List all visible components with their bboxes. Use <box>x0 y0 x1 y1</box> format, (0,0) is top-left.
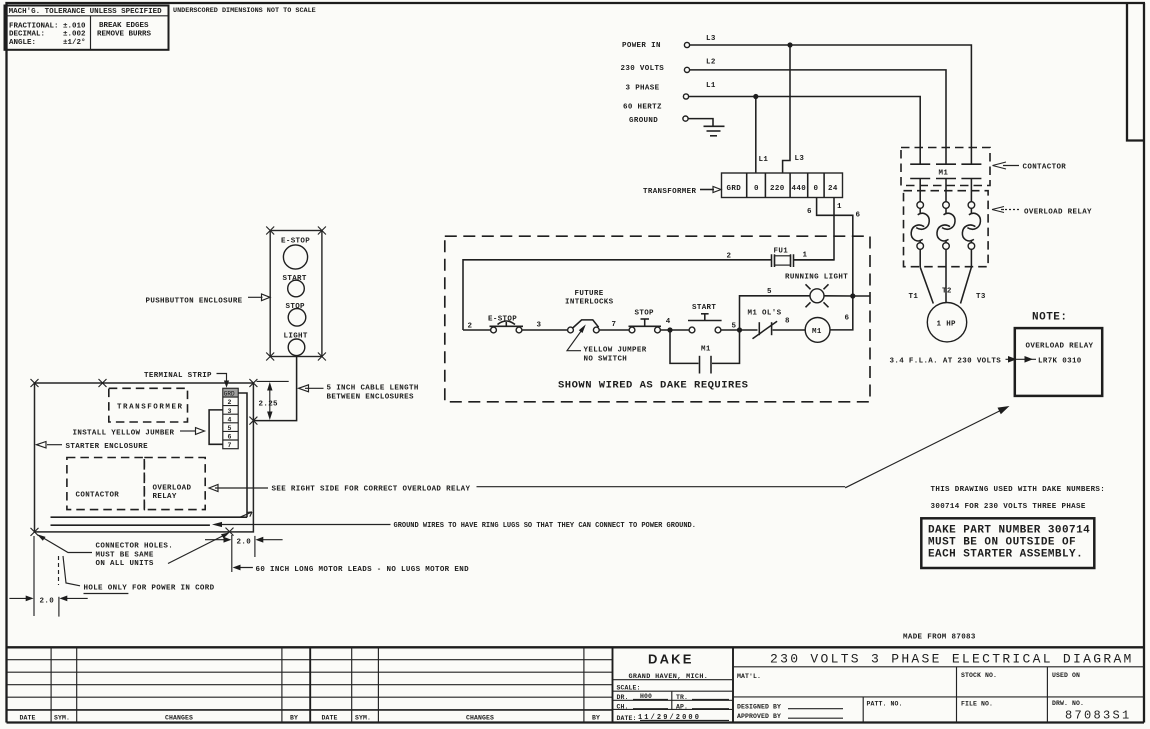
title block right <box>733 651 1144 722</box>
wire 2 top <box>463 260 771 330</box>
svg-text:2: 2 <box>727 253 732 261</box>
starter enclosure <box>31 379 258 536</box>
svg-text:1 HP: 1 HP <box>937 321 957 329</box>
control circuit dashed enclosure <box>445 236 870 402</box>
svg-text:DRW. NO.: DRW. NO. <box>1052 700 1084 707</box>
jumper bracket terminals 3-7 <box>209 410 223 444</box>
svg-text:FU1: FU1 <box>774 248 789 256</box>
svg-text:RUNNING LIGHT: RUNNING LIGHT <box>785 273 848 281</box>
svg-text:REMOVE BURRS: REMOVE BURRS <box>97 31 152 39</box>
svg-text:USED ON: USED ON <box>1052 672 1080 679</box>
ground bar 1 <box>51 516 248 518</box>
svg-text:0: 0 <box>754 185 759 193</box>
svg-text:YELLOW JUMPER: YELLOW JUMPER <box>584 347 647 355</box>
svg-text:L3: L3 <box>706 35 716 43</box>
svg-text:SHOWN WIRED AS DAKE REQUIRES: SHOWN WIRED AS DAKE REQUIRES <box>558 380 748 392</box>
svg-text:2.0: 2.0 <box>237 539 252 547</box>
svg-text:H00: H00 <box>640 693 652 700</box>
svg-text:TR.: TR. <box>676 694 688 701</box>
running light <box>785 273 848 307</box>
svg-text:2: 2 <box>228 399 232 406</box>
svg-text:MADE FROM 87083: MADE FROM 87083 <box>903 633 976 641</box>
svg-text:SEE RIGHT SIDE FOR CORRECT OVE: SEE RIGHT SIDE FOR CORRECT OVERLOAD RELA… <box>272 486 471 494</box>
wire L2 <box>690 70 946 164</box>
svg-text:TRANSFORMER: TRANSFORMER <box>643 188 697 196</box>
svg-text:230 VOLTS 3 PHASE ELECTRICAL D: 230 VOLTS 3 PHASE ELECTRICAL DIAGRAM <box>770 651 1134 666</box>
pushbutton E-STOP (NC) <box>488 316 523 333</box>
dimension 2.0 bottom left <box>9 536 87 617</box>
svg-text:2.25: 2.25 <box>259 400 279 408</box>
svg-text:6: 6 <box>845 314 850 322</box>
svg-text:SCALE:: SCALE: <box>617 685 641 692</box>
overload relay dashed box <box>904 191 989 267</box>
wire L3 branch to transformer <box>783 45 790 173</box>
svg-text:CH.: CH. <box>617 703 629 710</box>
terminal L2 <box>684 67 689 72</box>
svg-text:6: 6 <box>856 212 861 220</box>
svg-text:LR7K 0310: LR7K 0310 <box>1038 358 1082 366</box>
svg-text:DAKE PART NUMBER 300714: DAKE PART NUMBER 300714 <box>928 525 1090 537</box>
svg-text:L1: L1 <box>706 82 716 90</box>
svg-text:T3: T3 <box>976 293 986 301</box>
contactor M1 dashed box <box>901 148 990 186</box>
svg-text:6: 6 <box>228 434 232 441</box>
svg-text:OVERLOAD RELAY: OVERLOAD RELAY <box>1024 209 1092 217</box>
node 5 junction <box>737 327 742 332</box>
wire stub to border <box>853 295 870 297</box>
svg-text:5: 5 <box>228 425 232 432</box>
svg-text:STOCK NO.: STOCK NO. <box>961 672 997 679</box>
motor lead T1 <box>920 267 933 303</box>
yellow jumper leader <box>567 324 647 363</box>
ground bar 2 <box>51 524 210 526</box>
power in labels <box>621 42 665 125</box>
wire 5 <box>721 329 758 331</box>
svg-text:MAT'L.: MAT'L. <box>737 673 761 680</box>
connector holes note <box>37 532 230 568</box>
FLA note leader <box>890 356 1037 366</box>
dimension 2.0 right <box>205 535 283 572</box>
svg-text:3: 3 <box>228 408 232 415</box>
revision table right <box>322 647 613 722</box>
overload contact M1 OL'S <box>748 310 806 339</box>
svg-text:MUST BE SAME: MUST BE SAME <box>96 551 154 559</box>
svg-text:7: 7 <box>228 442 232 449</box>
svg-text:3.4 F.L.A. AT 230 VOLTS: 3.4 F.L.A. AT 230 VOLTS <box>890 358 1002 366</box>
svg-text:GRD: GRD <box>224 391 235 398</box>
tolerance block <box>5 6 316 50</box>
overload relay label leader <box>992 207 1092 217</box>
transformer dashed box <box>109 388 188 422</box>
terminal ground <box>683 116 688 121</box>
svg-text:FRACTIONAL: ±.010: FRACTIONAL: ±.010 <box>9 23 86 31</box>
transformer T1 terminal block <box>722 173 843 198</box>
revision table left <box>7 647 613 722</box>
contactor pole 1 contacts <box>910 164 930 201</box>
cable pushbutton to starter <box>254 357 297 421</box>
svg-text:BY: BY <box>290 715 298 722</box>
rung wire 2 <box>463 329 491 331</box>
wire 5 up to running light <box>740 296 811 330</box>
part number box <box>921 518 1094 568</box>
svg-text:FUTURE: FUTURE <box>575 290 604 298</box>
svg-text:CHANGES: CHANGES <box>466 715 494 722</box>
svg-text:TRANSFORMER: TRANSFORMER <box>117 403 184 411</box>
svg-text:5: 5 <box>732 323 737 331</box>
60 inch leads note <box>233 565 469 574</box>
svg-text:4: 4 <box>228 416 232 423</box>
svg-text:2.0: 2.0 <box>40 597 55 605</box>
wire 7 <box>599 329 629 331</box>
wire 6 from transformer <box>817 198 853 297</box>
dimension 2.25 <box>257 381 289 420</box>
OL heater pole 3 <box>962 202 980 268</box>
svg-text:RELAY: RELAY <box>153 493 177 501</box>
svg-text:BETWEEN ENCLOSURES: BETWEEN ENCLOSURES <box>327 393 414 401</box>
coil M1 <box>805 318 830 343</box>
svg-text:1: 1 <box>803 252 808 260</box>
svg-text:ON ALL UNITS: ON ALL UNITS <box>96 560 154 568</box>
overload relay dashed box <box>144 458 205 510</box>
pushbutton enclosure <box>266 227 326 361</box>
motor 1 HP <box>927 303 966 342</box>
motor lead T3 <box>961 267 972 303</box>
svg-text:INSTALL YELLOW JUMBER: INSTALL YELLOW JUMBER <box>73 430 175 438</box>
svg-text:TERMINAL STRIP: TERMINAL STRIP <box>144 372 212 380</box>
drawing usage note <box>931 486 1106 511</box>
wire L1 branch to transformer <box>755 97 757 174</box>
svg-text:ANGLE: ±1/2°: ANGLE: ±1/2° <box>9 38 86 47</box>
hole only note <box>59 556 215 594</box>
svg-text:3: 3 <box>537 322 542 330</box>
contactor pole 2 contacts <box>936 164 956 201</box>
node L3-transformer junction <box>787 42 792 47</box>
contactor dashed box <box>67 458 144 510</box>
wire 1 fuse to junction <box>794 259 834 261</box>
node 6 junction <box>850 293 855 298</box>
svg-text:STARTER ENCLOSURE: STARTER ENCLOSURE <box>66 443 149 451</box>
svg-text:87083S1: 87083S1 <box>1065 709 1132 723</box>
svg-text:3 PHASE: 3 PHASE <box>626 84 660 92</box>
svg-text:DATE: DATE <box>20 715 36 722</box>
pushbutton enclosure label <box>146 294 271 305</box>
see right side leader <box>209 485 845 494</box>
future interlocks terminals <box>565 290 614 333</box>
long leader arrow to note <box>845 406 1009 488</box>
svg-text:POWER IN: POWER IN <box>622 42 661 50</box>
install yellow jumper label <box>73 428 205 438</box>
svg-text:INTERLOCKS: INTERLOCKS <box>565 299 614 307</box>
svg-text:DATE: DATE <box>322 715 338 722</box>
transformer label <box>643 187 721 197</box>
svg-text:CONNECTOR HOLES.: CONNECTOR HOLES. <box>96 543 174 551</box>
svg-text:7: 7 <box>612 321 617 329</box>
svg-text:4: 4 <box>666 318 671 326</box>
svg-text:STOP: STOP <box>635 310 655 318</box>
svg-text:FILE NO.: FILE NO. <box>961 701 993 708</box>
svg-text:DR.: DR. <box>617 694 629 701</box>
svg-text:CONTACTOR: CONTACTOR <box>1023 164 1067 172</box>
node 4 junction <box>667 327 672 332</box>
svg-text:L3: L3 <box>795 155 805 163</box>
svg-text:GROUND: GROUND <box>629 117 658 125</box>
svg-text:M1 OL'S: M1 OL'S <box>748 310 782 318</box>
svg-text:PATT. NO.: PATT. NO. <box>867 701 903 708</box>
svg-text:M1: M1 <box>812 328 822 336</box>
svg-text:AP.: AP. <box>676 703 688 710</box>
svg-text:5 INCH CABLE LENGTH: 5 INCH CABLE LENGTH <box>327 385 419 393</box>
svg-text:M1: M1 <box>939 170 949 178</box>
svg-text:1: 1 <box>837 203 842 211</box>
svg-text:DESIGNED BY: DESIGNED BY <box>737 703 781 710</box>
svg-text:440: 440 <box>792 185 807 193</box>
svg-text:6: 6 <box>807 208 812 216</box>
wire L3 <box>690 45 972 164</box>
svg-text:T2: T2 <box>942 287 952 295</box>
terminal L1 <box>683 94 688 99</box>
svg-text:CONTACTOR: CONTACTOR <box>76 491 120 499</box>
ground symbol <box>704 126 725 136</box>
wire 3 <box>522 329 568 331</box>
pushbutton STOP (NC) <box>629 310 662 333</box>
svg-text:DAKE: DAKE <box>648 652 694 667</box>
ground wires note leader <box>212 512 696 530</box>
cable length note <box>299 385 419 402</box>
DAKE company block <box>613 647 734 722</box>
svg-text:EACH STARTER ASSEMBLY.: EACH STARTER ASSEMBLY. <box>928 549 1083 561</box>
svg-text:START: START <box>692 304 716 312</box>
svg-text:SYM.: SYM. <box>54 715 70 722</box>
svg-text:5: 5 <box>767 288 772 296</box>
ground wire from GRD terminal <box>238 393 247 517</box>
wire 6 coil to junction <box>830 296 853 330</box>
svg-text:OVERLOAD RELAY: OVERLOAD RELAY <box>1026 343 1094 351</box>
svg-text:BREAK EDGES: BREAK EDGES <box>99 22 149 30</box>
pushbutton START (NO) <box>688 304 722 333</box>
svg-text:SYM.: SYM. <box>355 715 371 722</box>
svg-text:GRAND HAVEN, MICH.: GRAND HAVEN, MICH. <box>629 673 709 681</box>
svg-text:E-STOP: E-STOP <box>281 237 310 245</box>
starter enclosure label <box>37 442 149 452</box>
svg-text:60 HERTZ: 60 HERTZ <box>623 104 662 112</box>
svg-text:THIS DRAWING USED WITH DAKE NU: THIS DRAWING USED WITH DAKE NUMBERS: <box>931 486 1106 494</box>
svg-text:0: 0 <box>814 185 819 193</box>
svg-text:GRD: GRD <box>727 185 742 193</box>
svg-text:24: 24 <box>828 185 838 193</box>
wire light to junction <box>824 295 853 297</box>
contactor pole 3 contacts <box>961 164 981 201</box>
svg-text:DATE:: DATE: <box>617 715 637 722</box>
svg-text:NO SWITCH: NO SWITCH <box>584 355 628 363</box>
svg-text:M1: M1 <box>701 346 711 354</box>
svg-text:HOLE ONLY FOR POWER IN CORD: HOLE ONLY FOR POWER IN CORD <box>84 584 215 592</box>
ground wire <box>688 119 713 126</box>
svg-text:PUSHBUTTON ENCLOSURE: PUSHBUTTON ENCLOSURE <box>146 297 243 305</box>
OL heater pole 2 <box>937 202 955 303</box>
terminal strip <box>223 388 238 449</box>
svg-text:APPROVED BY: APPROVED BY <box>737 713 781 720</box>
note box overload relay <box>1015 328 1102 396</box>
svg-text:CHANGES: CHANGES <box>165 715 193 722</box>
svg-text:8: 8 <box>785 318 790 326</box>
svg-text:230 VOLTS: 230 VOLTS <box>621 65 665 73</box>
svg-text:2: 2 <box>468 322 473 330</box>
wire 4 <box>660 329 689 331</box>
svg-text:NOTE:: NOTE: <box>1032 312 1068 324</box>
svg-text:MACH'G. TOLERANCE UNLESS SPECI: MACH'G. TOLERANCE UNLESS SPECIFIED <box>9 8 163 16</box>
fuse FU1 <box>772 248 794 268</box>
contactor label leader <box>993 162 1067 172</box>
node L1-transformer junction <box>753 94 758 99</box>
wire L1 <box>689 97 921 165</box>
svg-text:L2: L2 <box>706 58 716 66</box>
svg-text:L1: L1 <box>759 156 769 164</box>
terminal strip label <box>144 372 229 388</box>
svg-text:220: 220 <box>770 185 785 193</box>
svg-text:60 INCH LONG MOTOR LEADS - NO: 60 INCH LONG MOTOR LEADS - NO LUGS MOTOR… <box>256 566 470 574</box>
terminal L3 <box>684 42 689 47</box>
svg-text:300714 FOR 230 VOLTS THREE PHA: 300714 FOR 230 VOLTS THREE PHASE <box>931 503 1086 511</box>
svg-text:DECIMAL: ±.002: DECIMAL: ±.002 <box>9 31 86 39</box>
svg-text:GROUND WIRES TO HAVE RING LUGS: GROUND WIRES TO HAVE RING LUGS SO THAT T… <box>394 522 696 530</box>
svg-text:BY: BY <box>592 715 600 722</box>
svg-text:MUST BE ON OUTSIDE OF: MUST BE ON OUTSIDE OF <box>928 537 1076 549</box>
svg-text:T1: T1 <box>909 293 919 301</box>
OL heater pole 1 <box>911 202 929 268</box>
svg-text:OVERLOAD: OVERLOAD <box>153 485 192 493</box>
svg-text:UNDERSCORED DIMENSIONS NOT TO: UNDERSCORED DIMENSIONS NOT TO SCALE <box>173 7 316 15</box>
aux contact M1 (NO) <box>670 330 740 374</box>
wire 1 from transformer 24V <box>794 198 834 260</box>
